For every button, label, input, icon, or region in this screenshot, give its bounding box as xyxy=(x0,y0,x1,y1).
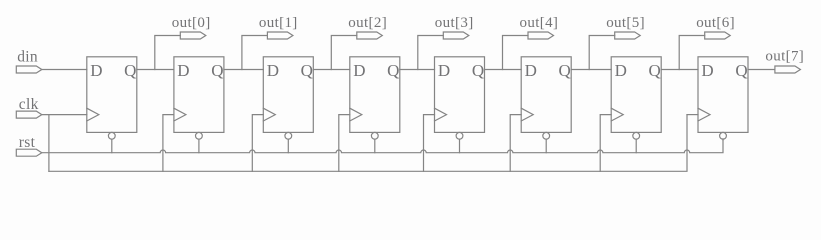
wire clk vertical drop to clock distribution rail xyxy=(48,115,50,172)
input pin clk xyxy=(16,96,42,118)
wire rst distribution line with hops, up to DFF8 reset bubble xyxy=(42,139,723,153)
input pin rst xyxy=(16,134,42,156)
svg-text:Q: Q xyxy=(387,61,399,80)
wire riser to out[5] pin xyxy=(589,36,615,70)
wire clock riser horizontal into DFF8 xyxy=(687,114,698,116)
flip-flop DFF4 xyxy=(350,57,400,139)
wire riser to out[2] pin xyxy=(331,36,357,70)
svg-text:D: D xyxy=(525,61,537,80)
svg-text:Q: Q xyxy=(211,61,223,80)
wire DFF1 Q to DFF2 D xyxy=(137,69,174,71)
flip-flop DFF6 xyxy=(521,57,571,139)
svg-text:Q: Q xyxy=(472,61,484,80)
wire clock riser to DFF2 xyxy=(163,115,174,172)
wire DFF4 reset bubble to rst line xyxy=(374,139,376,153)
output pin out[4] xyxy=(520,15,559,39)
svg-text:out[4]: out[4] xyxy=(520,15,559,31)
wire riser to out[1] pin xyxy=(242,36,268,70)
output pin out[0] xyxy=(172,15,211,39)
svg-text:Q: Q xyxy=(559,61,571,80)
wire riser to out[3] pin xyxy=(418,36,444,70)
wire clock riser to DFF7 xyxy=(600,115,611,172)
wire DFF6 reset bubble to rst line xyxy=(545,139,547,153)
input pin din xyxy=(16,49,42,73)
svg-text:D: D xyxy=(615,61,627,80)
wire riser to out[6] pin xyxy=(679,36,705,70)
svg-text:Q: Q xyxy=(649,61,661,80)
wire DFF4 Q to DFF5 D xyxy=(400,69,435,71)
svg-text:out[2]: out[2] xyxy=(348,15,387,31)
output pin out[6] xyxy=(696,15,735,39)
svg-text:D: D xyxy=(177,61,189,80)
svg-text:D: D xyxy=(353,61,365,80)
flip-flop DFF7 xyxy=(611,57,661,139)
output pin out[7] xyxy=(765,48,804,73)
svg-text:Q: Q xyxy=(735,61,747,80)
flip-flop DFF3 xyxy=(263,57,313,139)
wire din to DFF1 D input xyxy=(42,69,87,71)
wire DFF2 reset bubble to rst line xyxy=(198,139,200,153)
flip-flop DFF2 xyxy=(174,57,224,139)
wire riser to out[0] pin xyxy=(155,36,181,70)
wire DFF7 Q to DFF8 D xyxy=(661,69,698,71)
wire clk to DFF1 clock xyxy=(42,114,87,116)
svg-text:out[1]: out[1] xyxy=(259,15,298,31)
svg-text:Q: Q xyxy=(301,61,313,80)
output pin out[5] xyxy=(606,15,645,39)
svg-text:rst: rst xyxy=(19,134,36,151)
svg-text:D: D xyxy=(90,61,102,80)
output pin out[3] xyxy=(435,15,474,39)
wire clock riser to DFF6 xyxy=(510,115,521,172)
wire clock distribution rail (bottom) xyxy=(49,115,687,172)
output pin out[2] xyxy=(348,15,387,39)
wire DFF5 Q to DFF6 D xyxy=(485,69,522,71)
svg-text:D: D xyxy=(701,61,713,80)
output pin out[1] xyxy=(259,15,298,39)
svg-text:din: din xyxy=(17,49,38,66)
svg-text:out[3]: out[3] xyxy=(435,15,474,31)
wire DFF3 reset bubble to rst line xyxy=(287,139,289,153)
svg-text:Q: Q xyxy=(124,61,136,80)
wire clock riser to DFF3 xyxy=(252,115,263,172)
wire DFF3 Q to DFF4 D xyxy=(313,69,350,71)
svg-text:out[6]: out[6] xyxy=(696,15,735,31)
wire DFF6 Q to DFF7 D xyxy=(571,69,611,71)
svg-text:D: D xyxy=(267,61,279,80)
wire DFF1 reset bubble to rst line xyxy=(111,139,113,153)
wire clock riser to DFF5 xyxy=(424,115,435,172)
wire DFF8 reset bubble to rst line xyxy=(722,139,724,140)
svg-text:D: D xyxy=(438,61,450,80)
wire DFF5 reset bubble to rst line xyxy=(459,139,461,153)
wire DFF2 Q to DFF3 D xyxy=(224,69,263,71)
svg-text:out[5]: out[5] xyxy=(606,15,645,31)
flip-flop DFF5 xyxy=(435,57,485,139)
wire DFF8 Q to out[7] pin xyxy=(748,69,775,71)
svg-text:out[0]: out[0] xyxy=(172,15,211,31)
wire riser to out[4] pin xyxy=(503,36,529,70)
svg-text:out[7]: out[7] xyxy=(765,48,804,64)
flip-flop DFF1 xyxy=(87,57,137,139)
wire clock riser to DFF4 xyxy=(339,115,350,172)
wire DFF7 reset bubble to rst line xyxy=(635,139,637,153)
svg-text:clk: clk xyxy=(19,96,39,113)
flip-flop DFF8 xyxy=(698,57,748,139)
